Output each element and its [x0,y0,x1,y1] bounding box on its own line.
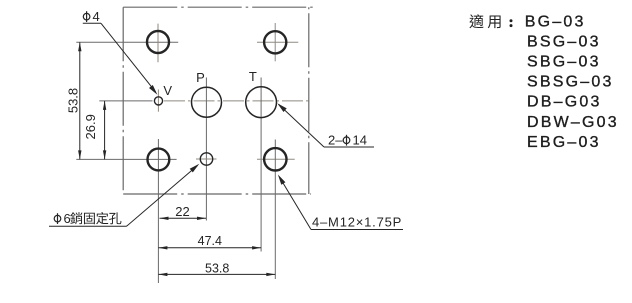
svg-text:BG–03: BG–03 [525,13,586,30]
svg-text:6: 6 [64,211,71,226]
svg-text:V: V [163,83,172,98]
svg-text:14: 14 [353,133,367,148]
svg-text:47.4: 47.4 [198,234,222,248]
svg-text:4: 4 [93,9,100,24]
svg-text:53.8: 53.8 [205,262,229,276]
svg-text:26.9: 26.9 [83,114,98,139]
svg-text:T: T [249,69,257,84]
svg-text:SBG–03: SBG–03 [527,54,601,71]
svg-text:53.8: 53.8 [66,88,81,113]
svg-text:4–M12×1.75P: 4–M12×1.75P [312,215,402,230]
svg-text:DBW–G03: DBW–G03 [527,114,619,131]
svg-text:DB–G03: DB–G03 [527,94,602,111]
svg-text:SBSG–03: SBSG–03 [527,74,614,91]
svg-text:EBG–03: EBG–03 [527,134,601,151]
svg-text:22: 22 [175,204,189,219]
svg-text:BSG–03: BSG–03 [527,33,601,50]
svg-text:P: P [196,70,205,85]
svg-text:2–: 2– [328,133,343,148]
